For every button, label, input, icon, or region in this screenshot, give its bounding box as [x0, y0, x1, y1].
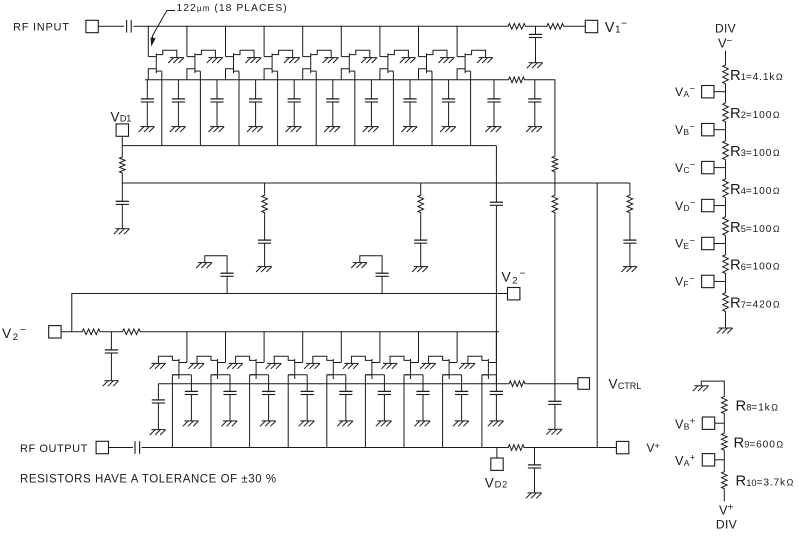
- wire gate feed Q8: [419, 26, 427, 56]
- svg-text:DIV: DIV: [715, 22, 736, 36]
- ground (C-top-8): [401, 127, 417, 132]
- transistor Q6 (top row FET): [341, 50, 370, 80]
- resistor R-VCTRL: [508, 381, 527, 387]
- pad VB-: [702, 123, 714, 135]
- label R3: [730, 144, 780, 160]
- wire tap VA+: [715, 459, 725, 461]
- ground (positive divider top): [693, 386, 709, 391]
- wire source lead Q13: [288, 374, 307, 376]
- wire tap VB+: [715, 422, 725, 424]
- ground (C-bot-1): [150, 430, 166, 435]
- wire elevated ground link 1: [205, 256, 227, 274]
- wire source Q14 to output bus: [326, 375, 328, 448]
- wire VD1 pad to source bus: [121, 136, 123, 145]
- capacitor C-VD1 (shunt): [116, 183, 129, 229]
- capacitor C-bot-8 (shunt): [416, 375, 429, 421]
- label R6: [730, 258, 780, 274]
- capacitor C-top-3 (shunt): [210, 80, 223, 127]
- wire divider segment 1: [725, 85, 727, 101]
- wire gate bus segment: [102, 331, 121, 333]
- wire source lead Q11: [211, 374, 230, 376]
- wire source lead Q17: [443, 374, 462, 376]
- wire gate feed Q6: [341, 26, 349, 56]
- ground (drain of Q17): [420, 363, 436, 368]
- wire RF output bus: [142, 447, 507, 449]
- svg-text:RF INPUT: RF INPUT: [13, 21, 70, 33]
- capacitor C-bot-5 (shunt): [301, 375, 314, 421]
- capacitor C-bot-3 (shunt): [223, 375, 236, 421]
- wire source Q16 to output bus: [403, 375, 405, 448]
- ground (drain of Q7): [400, 58, 416, 63]
- wire V2- upper bus: [72, 294, 508, 332]
- pad VE-: [702, 237, 714, 249]
- svg-text:122μm (18 PLACES): 122μm (18 PLACES): [177, 3, 288, 14]
- ground (drain of Q3): [245, 58, 261, 63]
- wire positive divider top link: [701, 381, 724, 395]
- wire source Q18 to output bus: [481, 375, 483, 448]
- wire elevated ground link 2: [360, 256, 382, 274]
- capacitor C-top-2 (shunt): [172, 80, 185, 127]
- capacitor C-bot-2 (shunt): [185, 375, 198, 421]
- ground (C-bot-7): [376, 421, 392, 426]
- capacitor C-bot-4 (shunt): [262, 375, 275, 421]
- transistor Q1 (top row FET): [148, 50, 177, 80]
- transistor Q3 (top row FET): [226, 50, 255, 80]
- capacitor C-V2 (shunt): [105, 332, 118, 381]
- wire VCTRL bus: [158, 383, 507, 385]
- wire VD2 stub: [496, 448, 498, 459]
- resistor R-out: [507, 445, 526, 451]
- wire divider bottom lead (positive): [723, 490, 725, 501]
- ground (drain of Q15): [343, 363, 359, 368]
- label 122um (18 PLACES): [177, 3, 288, 14]
- svg-text:DIV: DIV: [716, 517, 738, 531]
- resistor R-V2-2: [121, 329, 142, 335]
- transistor Q11 (bottom row FET): [197, 356, 218, 379]
- pad VD-: [702, 199, 714, 211]
- wire divider bottom lead: [725, 313, 727, 328]
- capacitor C-out-bypass: [528, 448, 541, 493]
- label VD2: [485, 475, 508, 490]
- ground (C-bot-6): [337, 421, 353, 426]
- capacitor C-bot-1 (shunt): [152, 384, 165, 430]
- wire VCTRL bus to pad: [527, 383, 578, 385]
- label R2: [730, 106, 780, 122]
- wire top RF bus: [134, 25, 507, 27]
- resistor R5: [723, 215, 729, 237]
- resistor R10: [722, 470, 728, 490]
- pad RF INPUT: [86, 20, 98, 32]
- wire source bus (top section): [122, 145, 496, 147]
- resistor R6: [723, 253, 729, 275]
- ground (C-bot-2): [183, 421, 199, 426]
- wire gate feed Q2: [187, 26, 195, 56]
- capacitor C-top-7 (shunt): [365, 80, 378, 127]
- wire tap VD-: [714, 205, 726, 207]
- wire top bus segment: [527, 25, 545, 27]
- pad V1-: [585, 20, 597, 32]
- leader arrow to gate line: [151, 11, 175, 47]
- ground (C-bot-10): [488, 421, 504, 426]
- label V2- (upper): [502, 267, 526, 286]
- ground (negative divider): [717, 328, 733, 333]
- capacitor C-bot-6 (shunt): [339, 375, 352, 421]
- transistor Q2 (top row FET): [187, 50, 216, 80]
- wire gate feed Q1: [148, 26, 156, 56]
- resistor R7: [723, 291, 729, 313]
- wire gate feed Q14: [333, 332, 341, 363]
- label VB-: [675, 122, 695, 138]
- transistor Q4 (top row FET): [264, 50, 293, 80]
- wire gate feed Q3: [226, 26, 234, 56]
- label V1-: [605, 17, 627, 36]
- resistor R1: [723, 63, 729, 85]
- capacitor C-top-11 (shunt): [528, 80, 541, 127]
- transistor Q8 (top row FET): [419, 50, 448, 80]
- pad VB+: [702, 417, 714, 429]
- ground (V1- bypass): [527, 63, 543, 68]
- capacitor C-bot-9 (shunt): [455, 375, 468, 421]
- wire tap VE-: [714, 243, 726, 245]
- wire source Q8 to lower bus: [431, 71, 433, 146]
- resistor R2: [723, 101, 729, 123]
- ground (C-top-10): [485, 127, 501, 132]
- ground (mid column 2): [412, 267, 428, 272]
- ground (C-top-1): [139, 127, 155, 132]
- transistor Q14 (bottom row FET): [313, 356, 334, 379]
- pad V+: [616, 441, 628, 453]
- wire mid bus A': [122, 182, 630, 184]
- ground (drain of Q9): [477, 58, 493, 63]
- wire gate feed Q11: [218, 332, 226, 363]
- ground (drain of Q13): [266, 363, 282, 368]
- wire tap VA-: [714, 91, 726, 93]
- wire long riser from source bus: [495, 146, 497, 203]
- capacitor C-554 (shunt below VCTRL bus): [548, 384, 561, 430]
- ground (C-top-7): [363, 127, 379, 132]
- transistor Q17 (bottom row FET): [429, 356, 450, 379]
- resistor R-VD1: [120, 146, 126, 183]
- wire divider segment R9-R10: [723, 452, 725, 470]
- resistor R-mid-2: [418, 183, 424, 214]
- label VCTRL: [609, 377, 642, 392]
- label VD1: [111, 109, 132, 124]
- wire gate feed Q13: [295, 332, 303, 363]
- transistor Q15 (bottom row FET): [351, 356, 372, 379]
- wire source lead Q16: [404, 374, 423, 376]
- wire source Q2 to lower bus: [199, 71, 201, 146]
- resistor R9: [722, 432, 728, 452]
- capacitor C-top-6 (shunt): [326, 80, 339, 127]
- port RF OUTPUT label: [20, 443, 88, 455]
- resistor R-554-lower: [552, 194, 558, 215]
- wire source Q10 to output bus: [171, 375, 173, 448]
- pad VC-: [702, 161, 714, 173]
- wire tap VC-: [714, 167, 726, 169]
- wire source Q15 to output bus: [364, 375, 366, 448]
- capacitor C-mid-2: [414, 214, 427, 266]
- ground (elevated 1): [196, 263, 212, 268]
- resistor R4: [723, 177, 729, 199]
- ground (C-bot-8): [414, 421, 430, 426]
- wire divider segment 2: [725, 123, 727, 139]
- label VF-: [675, 273, 694, 289]
- ground (right corner column): [621, 267, 637, 272]
- svg-text:RESISTORS HAVE A TOLERANCE OF: RESISTORS HAVE A TOLERANCE OF ±30 %: [20, 474, 277, 486]
- wire drain bus (top section): [145, 79, 507, 81]
- capacitor C-series-496: [490, 202, 503, 384]
- wire drain bus to corner: [526, 80, 555, 155]
- wire source Q6 to lower bus: [354, 71, 356, 146]
- wire tap VB-: [714, 129, 726, 131]
- wire gate feed Q4: [264, 26, 272, 56]
- wire divider segment 5: [725, 237, 727, 253]
- ground (drain of Q5): [323, 58, 339, 63]
- ground (C-top-5): [286, 127, 302, 132]
- resistor R-V2-1: [81, 329, 102, 335]
- wire source Q9 to lower bus: [470, 71, 472, 146]
- label DIV (bottom): [716, 517, 738, 531]
- capacitor C-elev-2: [376, 273, 389, 293]
- label R1: [730, 68, 783, 84]
- wire gate feed Q5: [303, 26, 311, 56]
- transistor Q10 (bottom row FET): [158, 356, 179, 379]
- wire V2- pad to R: [61, 331, 81, 333]
- svg-text:RF OUTPUT: RF OUTPUT: [20, 443, 88, 455]
- pad VCTRL: [578, 378, 590, 390]
- wire 554 column: [554, 174, 556, 194]
- ground (V2 column): [103, 381, 119, 386]
- capacitor C-elev-1: [221, 273, 234, 293]
- ground (drain of Q14): [304, 363, 320, 368]
- wire RF input pad to C-in: [98, 25, 124, 27]
- label VA-: [675, 84, 695, 100]
- ground (554 column): [546, 429, 562, 434]
- transistor Q18 (bottom row FET): [468, 356, 489, 379]
- label DIV (top): [715, 22, 736, 36]
- capacitor C-in (series, RF input): [127, 20, 132, 33]
- capacitor C-top-8 (shunt): [403, 80, 416, 127]
- capacitor C-top-9 (shunt): [442, 80, 455, 127]
- resistor R-top-1 (V1- feed): [507, 24, 528, 30]
- capacitor C-right-corner: [623, 214, 636, 266]
- wire source Q11 to output bus: [210, 375, 212, 448]
- wire tap VF-: [714, 280, 726, 282]
- wire source Q12 to output bus: [249, 375, 251, 448]
- ground (drain of Q18): [459, 363, 475, 368]
- wire 554 column to bottom bus: [554, 214, 556, 383]
- label R10: [736, 474, 794, 490]
- wire divider top lead: [725, 51, 727, 64]
- transistor Q9 (top row FET): [457, 50, 486, 80]
- wire gate feed Q18: [488, 332, 496, 363]
- label V+: [647, 441, 661, 455]
- wire source lead Q12: [250, 374, 269, 376]
- label V+ (bottom divider): [719, 503, 734, 518]
- label R4: [730, 182, 780, 198]
- pad VD1: [116, 124, 128, 136]
- transistor Q12 (bottom row FET): [236, 356, 257, 379]
- wire divider segment 4: [725, 199, 727, 215]
- label VE-: [675, 235, 695, 251]
- pad V2- (upper): [508, 288, 520, 300]
- ground (drain of Q8): [438, 58, 454, 63]
- pad RF OUTPUT: [96, 441, 108, 453]
- wire source Q17 to output bus: [442, 375, 444, 448]
- pad VF-: [702, 275, 714, 287]
- label VB+: [675, 416, 696, 432]
- wire source lead Q14: [327, 374, 346, 376]
- capacitor C-top-4 (shunt): [249, 80, 262, 127]
- ground (C-bot-9): [453, 421, 469, 426]
- transistor Q16 (bottom row FET): [390, 356, 411, 379]
- wire V+ riser: [596, 183, 598, 448]
- label VC-: [675, 160, 695, 176]
- wire source lead Q15: [365, 374, 384, 376]
- capacitor C-bot-7 (shunt): [378, 375, 391, 421]
- wire source Q3 to lower bus: [238, 71, 240, 146]
- capacitor C-mid-1: [258, 214, 271, 266]
- wire source lead Q18: [482, 374, 497, 376]
- resistor R-554-upper: [552, 155, 558, 174]
- ground (elevated 2): [351, 263, 367, 268]
- resistor R3: [723, 139, 729, 161]
- wire gate feed Q17: [449, 332, 457, 363]
- wire source Q7 to lower bus: [392, 71, 394, 146]
- ground (C-top-6): [324, 127, 340, 132]
- capacitor C-bypass V1- node: [529, 26, 542, 62]
- wire source Q1 to lower bus: [161, 71, 163, 146]
- wire divider segment R8-R9: [723, 415, 725, 431]
- wire bottom gate bus: [142, 331, 499, 333]
- label VD-: [675, 198, 695, 214]
- ground (VD1 column): [114, 229, 130, 234]
- wire source Q13 to output bus: [287, 375, 289, 448]
- wire gate feed Q12: [256, 332, 264, 363]
- transistor Q7 (top row FET): [380, 50, 409, 80]
- wire output bus to V+ pad: [526, 447, 617, 449]
- ground (drain of Q10): [150, 363, 166, 368]
- wire source Q4 to lower bus: [277, 71, 279, 146]
- ground (C-top-9): [440, 127, 456, 132]
- ground (C-top-4): [247, 127, 263, 132]
- label R5: [730, 220, 780, 236]
- label R8: [736, 398, 779, 414]
- resistor R-right-corner: [627, 183, 633, 214]
- ground (drain of Q1): [168, 58, 184, 63]
- resistor R-mid-1: [262, 183, 268, 214]
- capacitor C-top-5 (shunt): [288, 80, 301, 127]
- label R7: [730, 296, 780, 312]
- ground (C-top-11): [526, 127, 542, 132]
- resistor R8: [722, 395, 728, 415]
- ground (drain of Q12): [227, 363, 243, 368]
- pad VD2: [491, 458, 503, 470]
- ground (C-top-3): [208, 127, 224, 132]
- wire gate feed Q15: [372, 332, 380, 363]
- resistor R-top-2 (V1- feed): [545, 24, 565, 30]
- ground (C-bot-3): [221, 421, 237, 426]
- wire gate feed Q9: [457, 26, 465, 56]
- wire gate feed Q7: [380, 26, 388, 56]
- wire RF output pad to C-out: [109, 447, 133, 449]
- resistor R-drain-bus: [507, 77, 526, 83]
- wire gate feed Q16: [411, 332, 419, 363]
- ground (drain of Q11): [188, 363, 204, 368]
- capacitor C-top-10 (shunt): [487, 80, 500, 127]
- ground (output bypass): [526, 493, 542, 498]
- ground (drain of Q16): [381, 363, 397, 368]
- ground (C-top-2): [170, 127, 186, 132]
- capacitor C-bot-10 (shunt): [490, 375, 503, 421]
- wire to V1- pad: [565, 25, 585, 27]
- ground (drain of Q2): [207, 58, 223, 63]
- pad VA-: [702, 86, 714, 98]
- port RF INPUT label: [13, 21, 70, 33]
- wire source Q5 to lower bus: [315, 71, 317, 146]
- capacitor C-top-1 (shunt): [141, 80, 154, 127]
- ground (C-bot-4): [260, 421, 276, 426]
- ground (drain of Q4): [284, 58, 300, 63]
- ground (mid column 1): [256, 267, 272, 272]
- label R9: [734, 435, 784, 451]
- ground (drain of Q6): [361, 58, 377, 63]
- wire gate feed Q10: [179, 332, 187, 363]
- label VA+: [675, 453, 696, 469]
- label V2- (lower): [2, 324, 26, 343]
- wire divider segment 6: [725, 275, 727, 291]
- wire divider segment 3: [725, 161, 727, 177]
- label V- (top divider): [718, 35, 733, 50]
- wire source lead Q10: [172, 374, 191, 376]
- capacitor C-out (series, RF output): [135, 441, 140, 454]
- pad VA+: [702, 454, 714, 466]
- pad V2- (lower): [49, 326, 61, 338]
- note tolerance text: [20, 474, 277, 486]
- ground (C-bot-5): [299, 421, 315, 426]
- transistor Q13 (bottom row FET): [274, 356, 295, 379]
- transistor Q5 (top row FET): [303, 50, 332, 80]
